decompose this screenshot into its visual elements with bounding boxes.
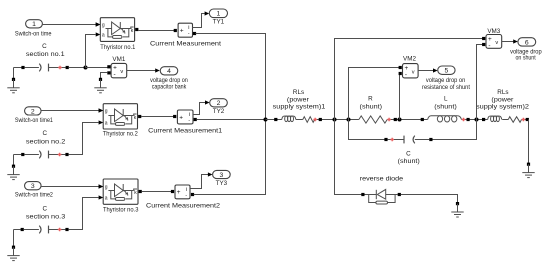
C section no.3 branch wire left <box>14 229 21 231</box>
node D junction <box>347 118 351 122</box>
node B junction <box>264 118 268 122</box>
svg-text:(shunt): (shunt) <box>434 104 457 111</box>
output port 4 <box>160 67 178 75</box>
main bus wire segments <box>266 119 282 121</box>
wire CM2 i to TY2 <box>193 103 205 115</box>
voltage measurement VM3 <box>486 35 502 49</box>
input port 3 <box>25 182 42 190</box>
wire C2 to thyristor2 anode <box>69 123 99 155</box>
svg-text:g: g <box>105 185 108 191</box>
output port 6 <box>518 38 536 46</box>
svg-text:TY1: TY1 <box>213 19 225 26</box>
current measurement U4 Current Measurement <box>178 23 192 37</box>
ground G5 <box>456 202 459 205</box>
wire C3 to thyristor3 anode <box>69 198 99 230</box>
svg-text:-: - <box>488 42 490 49</box>
svg-text:on shunt: on shunt <box>516 55 536 62</box>
C (shunt) branch wire left <box>349 120 385 140</box>
svg-text:reverse diode: reverse diode <box>360 175 404 182</box>
svg-text:+: + <box>177 189 181 196</box>
thyristor U2 Thyristor no.2 <box>103 104 137 129</box>
svg-text:+: + <box>180 28 184 35</box>
current measurement U6 Current Measurement2 <box>175 185 190 199</box>
wire node A to VM1 plus <box>86 67 108 69</box>
ground G4 <box>13 230 15 247</box>
series RLs (power supply system)2 <box>482 118 485 121</box>
svg-text:L: L <box>444 95 448 102</box>
svg-text:section no.1: section no.1 <box>26 51 65 58</box>
svg-text:TY2: TY2 <box>213 108 225 115</box>
svg-text:Switch-on time1: Switch-on time1 <box>15 117 53 124</box>
svg-text:C: C <box>43 206 48 213</box>
C section no.2 branch wire left <box>14 154 22 156</box>
wire thyristor3 k to CM3 plus <box>142 191 173 193</box>
wire CM3 i to TY3 <box>190 175 208 189</box>
thyristor U1 Thyristor no.1 <box>100 18 134 42</box>
output port TY1 <box>209 9 227 18</box>
wire CM1 i to TY1 <box>193 14 205 28</box>
wire C (shunt) right to node F <box>433 120 477 140</box>
svg-text:5: 5 <box>445 68 449 75</box>
ground G2 <box>99 78 102 81</box>
ground G6 <box>527 163 530 166</box>
series RLs (power supply system)1 <box>274 118 277 121</box>
wire thyristor2 k to CM2 plus <box>141 116 174 118</box>
svg-text:Thyristor no.2: Thyristor no.2 <box>103 131 138 138</box>
wire CM3 minus to node B <box>194 120 266 195</box>
wire port1 to thyristor1 gate <box>43 24 96 26</box>
svg-text:Current Measurement2: Current Measurement2 <box>146 203 220 210</box>
svg-text:Thyristor no.3: Thyristor no.3 <box>103 207 139 214</box>
input port 2 <box>25 107 42 115</box>
svg-text:capacitor bank: capacitor bank <box>152 84 187 91</box>
svg-text:v: v <box>412 69 415 75</box>
svg-text:-: - <box>405 71 407 78</box>
svg-text:supply system)1: supply system)1 <box>273 104 326 111</box>
svg-text:VM3: VM3 <box>487 28 500 35</box>
node C junction <box>333 118 337 122</box>
svg-text:Switch-on time: Switch-on time <box>15 30 52 37</box>
svg-text:(power: (power <box>491 96 513 103</box>
svg-text:a: a <box>102 33 105 39</box>
wire node E to VM2 minus <box>399 74 401 120</box>
wire VM2 out to port 5 <box>418 70 433 72</box>
svg-text:resistance of shunt: resistance of shunt <box>422 84 470 91</box>
wire node D to VM2 plus <box>349 68 400 120</box>
svg-text:Current Measurement1: Current Measurement1 <box>148 128 222 135</box>
svg-text:C: C <box>42 43 47 50</box>
svg-text:g: g <box>105 109 108 115</box>
svg-text:section no.2: section no.2 <box>26 138 66 145</box>
resistor R (shunt) <box>359 116 387 123</box>
svg-text:+: + <box>179 114 183 121</box>
svg-text:Current Measurement: Current Measurement <box>150 41 221 48</box>
wire port3 to thyristor3 gate <box>41 186 99 188</box>
svg-text:section no.3: section no.3 <box>26 213 66 220</box>
wire CM2 minus to node B <box>197 119 266 121</box>
svg-text:RLs: RLs <box>497 89 508 96</box>
svg-text:3: 3 <box>31 183 35 190</box>
thyristor U3 Thyristor no.3 <box>103 179 138 204</box>
svg-text:voltage drop on: voltage drop on <box>426 77 466 84</box>
C section no.1 branch wire left <box>14 67 22 69</box>
node F junction <box>475 118 479 122</box>
voltage measurement VM2 <box>403 64 419 78</box>
wire thyristor1 k to CM1 plus <box>138 30 175 32</box>
svg-text:3: 3 <box>220 172 224 179</box>
capacitor C3 section no.3 <box>39 226 41 234</box>
svg-text:v: v <box>495 40 498 46</box>
svg-text:a: a <box>105 121 108 127</box>
output port TY3 <box>213 170 231 178</box>
output port 5 <box>438 66 455 74</box>
wire node C to VM3 plus <box>335 39 484 120</box>
wire VM1 minus to ground G2 <box>101 73 108 79</box>
svg-text:-: - <box>114 71 116 78</box>
wire bus right end down to ground G6 <box>528 120 530 164</box>
svg-text:RLs: RLs <box>293 89 304 96</box>
wire reverse diode to ground G5 <box>401 195 458 203</box>
svg-text:VM2: VM2 <box>403 55 416 62</box>
ground G1 <box>13 68 15 79</box>
wire VM1 out to port 4 <box>127 70 156 72</box>
svg-text:(power: (power <box>287 96 309 103</box>
svg-text:4: 4 <box>167 68 171 75</box>
ground G3 <box>13 155 15 166</box>
svg-text:(shunt): (shunt) <box>398 158 420 165</box>
svg-text:6: 6 <box>525 39 529 46</box>
wire port2 to thyristor2 gate <box>41 110 99 112</box>
wire node F to VM3 minus <box>477 45 484 120</box>
svg-text:TY3: TY3 <box>216 180 228 187</box>
current measurement U5 Current Measurement1 <box>177 110 193 124</box>
svg-text:C: C <box>43 130 48 137</box>
capacitor C2 section no.2 <box>39 151 41 159</box>
svg-text:VM1: VM1 <box>112 56 125 63</box>
svg-text:2: 2 <box>31 108 35 115</box>
node A junction <box>84 66 88 70</box>
input port 1 <box>26 20 43 28</box>
node E junction <box>398 118 402 122</box>
wire node A to thyristor1 anode <box>86 35 96 68</box>
output port TY2 <box>210 99 228 107</box>
svg-text:Switch-on time2: Switch-on time2 <box>15 192 53 199</box>
wire CM1 minus to node B <box>196 34 266 120</box>
svg-text:a: a <box>105 196 108 202</box>
svg-text:supply system)2: supply system)2 <box>476 104 530 111</box>
inductor L (shunt) <box>421 118 424 121</box>
svg-text:v: v <box>120 69 123 75</box>
svg-text:g: g <box>102 23 105 29</box>
capacitor C1 section no.1 <box>39 64 41 72</box>
svg-text:C: C <box>406 150 411 157</box>
svg-text:2: 2 <box>217 100 221 107</box>
wire node C down to reverse diode <box>335 120 363 195</box>
voltage measurement VM1 <box>111 63 127 77</box>
svg-text:Thyristor no.1: Thyristor no.1 <box>100 44 135 51</box>
svg-text:1: 1 <box>217 11 221 18</box>
capacitor C4 C (shunt) <box>384 138 387 141</box>
svg-text:(shunt): (shunt) <box>360 104 383 111</box>
wire VM3 out to port 6 <box>502 41 514 43</box>
svg-text:R: R <box>368 95 373 102</box>
svg-text:1: 1 <box>32 21 36 28</box>
reverse diode D1 <box>361 193 364 196</box>
